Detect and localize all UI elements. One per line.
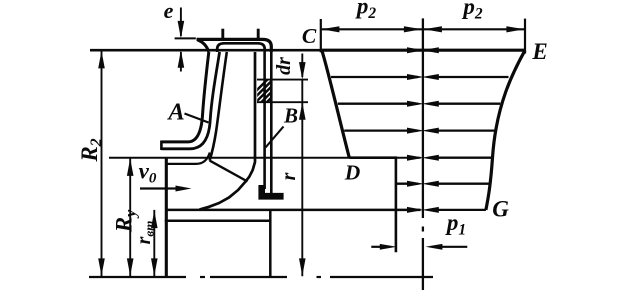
svg-text:R2: R2 [77, 138, 105, 162]
svg-text:p1: p1 [445, 210, 466, 239]
svg-text:p2: p2 [355, 0, 377, 22]
svg-text:A: A [166, 99, 184, 126]
svg-text:D: D [344, 161, 361, 185]
svg-text:p2: p2 [461, 0, 483, 23]
svg-text:B: B [283, 104, 298, 128]
svg-text:dr: dr [273, 57, 295, 75]
svg-text:G: G [492, 197, 509, 222]
svg-text:C: C [302, 24, 317, 48]
svg-text:r: r [278, 172, 300, 180]
svg-text:e: e [164, 0, 174, 23]
svg-text:E: E [531, 39, 547, 64]
svg-text:Ry: Ry [112, 209, 140, 233]
svg-text:rвт: rвт [133, 221, 157, 245]
svg-text:v0: v0 [139, 159, 157, 187]
